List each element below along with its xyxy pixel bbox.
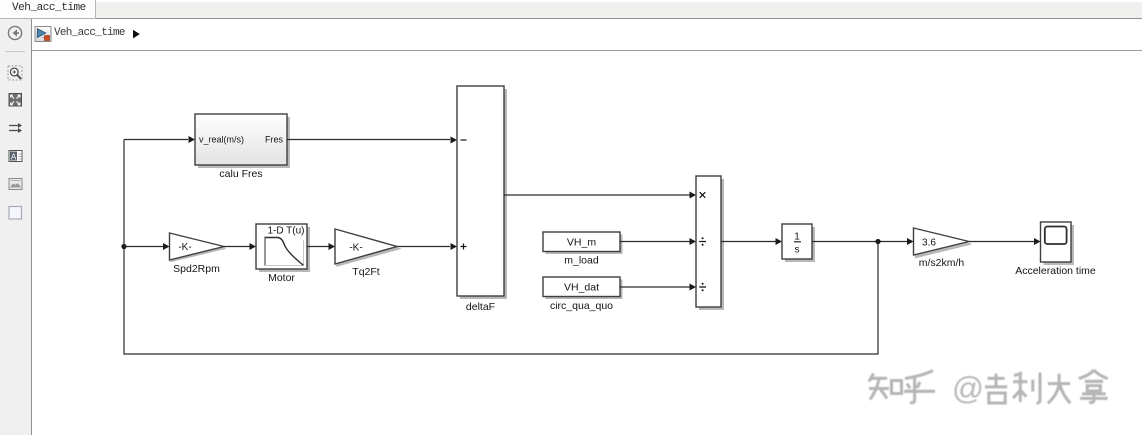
toolbar icon: double arrows (9, 123, 22, 133)
toolbar icon: image (9, 179, 22, 190)
toolbar icon: back button (8, 26, 21, 39)
gain Tq2Ft (335, 229, 400, 266)
constant VH_m shadow (546, 235, 623, 255)
wire junction to Spd2Rpm (124, 246, 163, 248)
integrator block 1/s (782, 224, 812, 259)
wire into calu Fres input (124, 139, 188, 141)
product block (696, 176, 721, 307)
svg-text:Spd2Rpm: Spd2Rpm (173, 263, 220, 275)
wire Spd2Rpm to Motor (224, 246, 250, 248)
scope block Acceleration time (1041, 222, 1072, 262)
wire product to integrator (721, 241, 776, 243)
wire Motor to Tq2Ft (307, 246, 329, 248)
svg-text:1-D T(u): 1-D T(u) (267, 226, 304, 237)
wire feedback: from junction right of integrator down, left, and up the left side (124, 140, 878, 355)
watermark char hu (904, 371, 935, 403)
active tab Veh_acc_time (0, 0, 96, 19)
watermark char na (1079, 370, 1108, 403)
svg-text:@: @ (952, 370, 984, 406)
watermark char li (1013, 373, 1040, 404)
constant VH_dat (543, 277, 620, 297)
tab bar background (0, 2, 1142, 19)
lookup table Motor shadow (259, 227, 310, 272)
gain Spd2Rpm (170, 233, 226, 261)
svg-text:m/s2km/h: m/s2km/h (919, 257, 965, 269)
svg-text:A: A (11, 153, 17, 162)
wire integrator to gain with junction (812, 241, 907, 243)
wire VH_dat to product third input (620, 286, 690, 288)
subsystem calu Fres (195, 114, 287, 165)
wire gain to scope (969, 241, 1034, 243)
toolbar icon: area square (9, 207, 22, 220)
breadcrumb bar (32, 19, 1142, 51)
constant VH_dat shadow (546, 280, 623, 300)
gain m/s2km/h (3.6) (914, 228, 972, 258)
wire VH_m to product second input (620, 241, 690, 243)
junction node left (121, 244, 126, 249)
lookup table Motor (256, 224, 307, 269)
svg-text:-K-: -K- (349, 243, 362, 254)
toolbar icon: zoom magnifier (8, 66, 22, 80)
product block shadow (699, 179, 724, 310)
toolbar icon: fit to view (9, 94, 22, 107)
watermark char ji (985, 374, 1007, 403)
svg-text:-K-: -K- (178, 242, 191, 253)
integrator block shadow (785, 227, 815, 262)
svg-text:Fres: Fres (265, 135, 284, 145)
toolbar icon: annotation A (9, 151, 22, 162)
svg-text:circ_qua_quo: circ_qua_quo (550, 300, 613, 312)
scope block shadow (1044, 225, 1075, 265)
watermark zhihu (869, 370, 1108, 406)
subsystem calu Fres shadow (198, 117, 290, 168)
watermark char zhi (869, 374, 902, 400)
svg-text:calu Fres: calu Fres (219, 168, 262, 180)
svg-text:VH_m: VH_m (567, 237, 596, 249)
tab title text (12, 2, 86, 15)
svg-text:v_real(m/s): v_real(m/s) (199, 135, 244, 145)
wire Tq2Ft to deltaF plus input (397, 246, 450, 248)
svg-text:deltaF: deltaF (466, 301, 495, 313)
junction node right (875, 239, 880, 244)
svg-text:3.6: 3.6 (922, 238, 936, 249)
svg-text:m_load: m_load (564, 255, 599, 267)
sum block deltaF shadow (460, 89, 507, 299)
svg-text:VH_dat: VH_dat (564, 282, 599, 294)
constant VH_m (543, 232, 620, 252)
breadcrumb text Veh_acc_time (54, 28, 125, 39)
breadcrumb model icon (35, 27, 51, 42)
watermark char da (1048, 374, 1070, 404)
toolbar separator (6, 51, 26, 53)
wire deltaF to product first input (504, 194, 690, 196)
svg-text:s: s (795, 245, 800, 256)
breadcrumb arrow (133, 30, 140, 39)
svg-text:Motor: Motor (268, 272, 295, 284)
left toolbar background (0, 19, 32, 435)
wire calu Fres to deltaF minus input (287, 139, 450, 141)
svg-text:1: 1 (794, 232, 800, 243)
sum block deltaF (457, 86, 504, 296)
svg-text:Tq2Ft: Tq2Ft (352, 266, 380, 278)
svg-text:Acceleration time: Acceleration time (1015, 265, 1096, 277)
